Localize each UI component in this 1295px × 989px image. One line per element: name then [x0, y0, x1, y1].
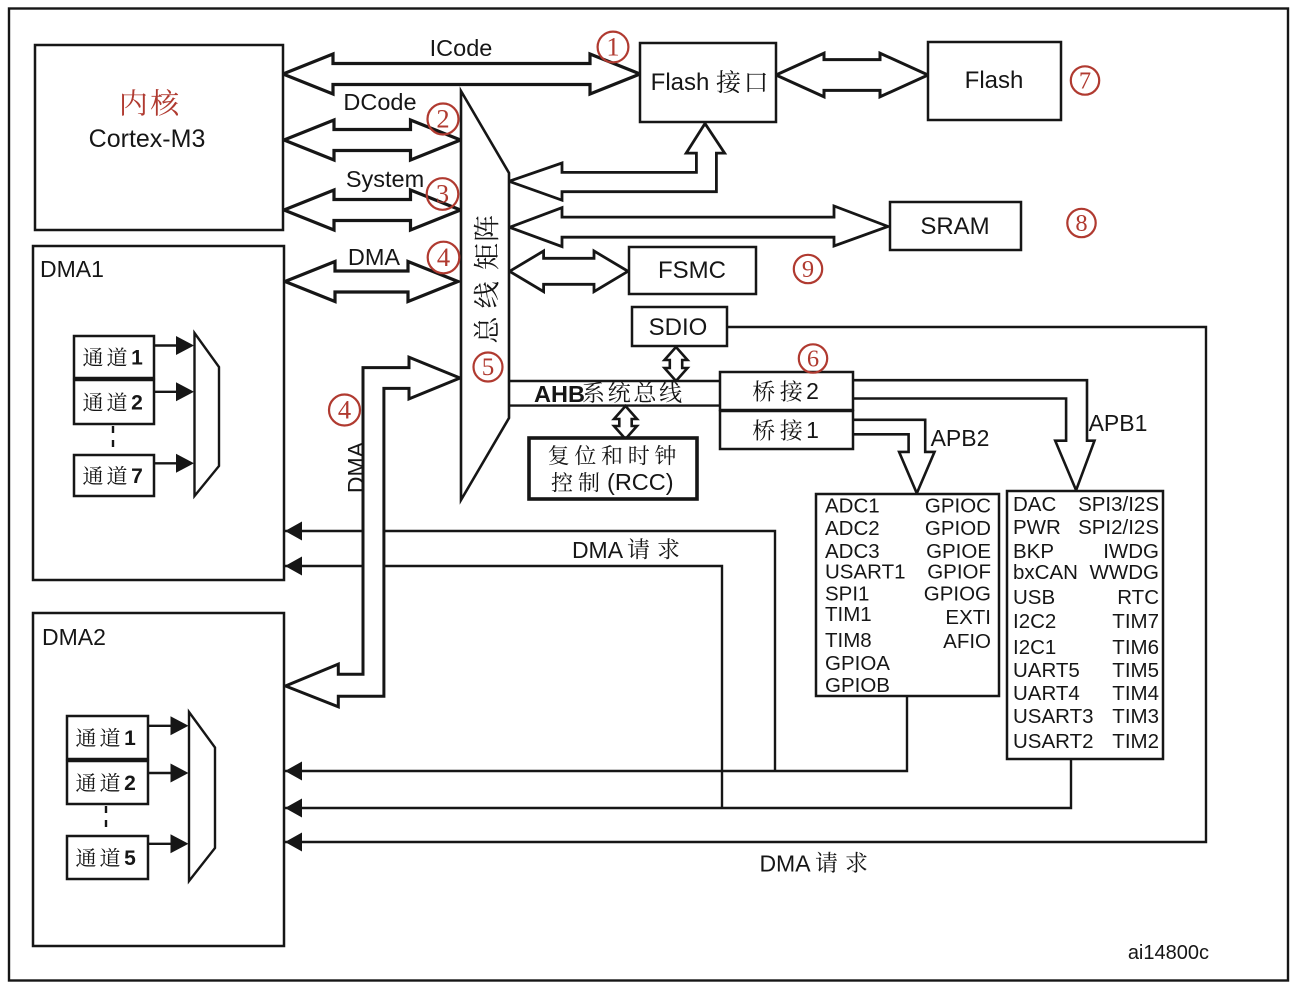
- label bus matrix (vertical): [474, 216, 499, 342]
- box DMA1 channel7: [74, 455, 154, 496]
- box bridge2: [720, 372, 853, 410]
- label core (red): [122, 89, 146, 115]
- svg-text:ICode: ICode: [430, 35, 493, 61]
- svg-text:SRAM: SRAM: [920, 213, 989, 240]
- svg-text:7: 7: [1079, 68, 1091, 95]
- svg-text:TIM5: TIM5: [1112, 659, 1159, 682]
- box DMA2 channel5: [67, 836, 148, 879]
- label DMA1 channel 7: [83, 466, 103, 485]
- svg-text:(RCC): (RCC): [607, 469, 674, 495]
- mux trapezoid DMA2: [189, 712, 215, 881]
- svg-text:WWDG: WWDG: [1090, 561, 1159, 584]
- box SDIO: [632, 307, 727, 346]
- svg-text:USB: USB: [1013, 586, 1055, 609]
- box Flash interface: [640, 43, 776, 122]
- label RCC line2: [552, 472, 573, 492]
- svg-text:System: System: [346, 166, 424, 192]
- arrowhead DMA request into DMA2 (3): [285, 833, 302, 852]
- wire DMA request from APB1 to DMA2: [284, 759, 1071, 808]
- arrow DCode bus: [284, 120, 461, 160]
- box APB2 peripherals: [816, 494, 999, 696]
- label APB1 peripheral list right column: [1078, 493, 1159, 753]
- svg-text:DMA: DMA: [572, 537, 624, 563]
- label DMA2 channel 2: [76, 773, 96, 792]
- circled number 3: [427, 178, 459, 210]
- svg-text:SPI1: SPI1: [825, 583, 869, 606]
- svg-text:GPIOE: GPIOE: [926, 540, 991, 563]
- circled number 7: [1071, 66, 1099, 94]
- circled number 2: [428, 104, 459, 135]
- box bridge1: [720, 411, 853, 449]
- svg-text:1: 1: [606, 32, 619, 62]
- arrow AHB bus to RCC: [614, 406, 637, 439]
- label DMA2 channel 5: [76, 848, 96, 867]
- arrow Flash interface to Flash: [776, 53, 928, 97]
- svg-text:DCode: DCode: [343, 89, 416, 115]
- svg-text:USART2: USART2: [1013, 730, 1094, 753]
- svg-text:TIM6: TIM6: [1112, 636, 1159, 659]
- svg-text:GPIOC: GPIOC: [925, 495, 991, 518]
- circled number 4: [428, 242, 460, 274]
- svg-text:GPIOD: GPIOD: [925, 517, 991, 540]
- svg-text:Flash: Flash: [651, 69, 710, 96]
- svg-text:I2C2: I2C2: [1013, 610, 1056, 633]
- svg-text:1: 1: [124, 727, 136, 750]
- circled number 8: [1067, 209, 1095, 237]
- label APB1 peripheral list left column: [1013, 493, 1094, 753]
- arrow DMA bus DMA1: [285, 262, 458, 302]
- svg-text:5: 5: [124, 847, 136, 870]
- svg-text:AHB: AHB: [534, 381, 585, 407]
- arrowhead DMA request into DMA2 (1): [285, 762, 302, 781]
- svg-text:UART4: UART4: [1013, 682, 1080, 705]
- svg-text:GPIOB: GPIOB: [825, 674, 890, 697]
- svg-text:TIM2: TIM2: [1112, 730, 1159, 753]
- svg-text:AFIO: AFIO: [943, 630, 991, 653]
- label DMA2 channel 1: [76, 728, 96, 747]
- svg-text:APB1: APB1: [1089, 410, 1148, 436]
- svg-text:3: 3: [436, 179, 449, 209]
- svg-text:DMA1: DMA1: [40, 256, 104, 282]
- box DMA2: [33, 613, 284, 946]
- svg-text:GPIOA: GPIOA: [825, 652, 890, 675]
- svg-text:bxCAN: bxCAN: [1013, 561, 1078, 584]
- arrow DMA1 ch1 to mux: [154, 344, 178, 346]
- arrow SDIO to AHB bus: [665, 347, 688, 381]
- svg-text:6: 6: [807, 346, 819, 373]
- box DMA2 channel1: [67, 716, 148, 759]
- box SRAM: [890, 202, 1021, 250]
- svg-text:TIM3: TIM3: [1112, 705, 1159, 728]
- svg-text:DMA: DMA: [759, 851, 811, 877]
- svg-text:DMA: DMA: [348, 244, 401, 270]
- label DMA1 channel 1: [83, 348, 103, 367]
- arrow ICode bus: [283, 54, 640, 94]
- wire AHB system bus lower: [509, 404, 720, 406]
- svg-text:TIM8: TIM8: [825, 629, 872, 652]
- svg-text:DAC: DAC: [1013, 493, 1056, 516]
- box APB1 peripherals: [1007, 491, 1163, 759]
- svg-text:APB2: APB2: [931, 425, 990, 451]
- box DMA2 channel2: [67, 761, 148, 804]
- arrow bridge1 to APB2 peripherals: [854, 420, 935, 494]
- svg-text:ADC2: ADC2: [825, 517, 880, 540]
- label bridge2: [753, 380, 775, 401]
- svg-text:FSMC: FSMC: [658, 257, 726, 284]
- circled number 1: [598, 32, 629, 63]
- wire DMA request from SDIO to DMA2: [284, 327, 1206, 842]
- svg-text:RTC: RTC: [1117, 586, 1159, 609]
- wire DMA request from APB2 to DMA2: [284, 696, 907, 771]
- arrow DMA2 ch1 to mux: [148, 725, 172, 727]
- svg-text:TIM1: TIM1: [825, 603, 872, 626]
- dashed link DMA1 channels: [112, 426, 114, 453]
- wire AHB system bus upper: [509, 380, 720, 382]
- arrow bus matrix to SRAM: [510, 206, 888, 247]
- svg-text:IWDG: IWDG: [1103, 540, 1159, 563]
- svg-text:EXTI: EXTI: [945, 606, 991, 629]
- svg-text:4: 4: [437, 242, 450, 272]
- svg-text:ADC1: ADC1: [825, 495, 880, 518]
- svg-text:DMA2: DMA2: [42, 624, 106, 650]
- mux trapezoid DMA1: [195, 333, 220, 496]
- arrow bridge2 to APB1 peripherals: [853, 380, 1095, 490]
- box FSMC: [629, 247, 756, 294]
- svg-text:9: 9: [802, 256, 814, 283]
- svg-text:7: 7: [131, 465, 143, 488]
- svg-text:Cortex-M3: Cortex-M3: [89, 125, 206, 153]
- arrowhead DMA request into DMA2 (2): [285, 799, 302, 818]
- box Cortex-M3 core: [35, 45, 283, 230]
- svg-text:1: 1: [131, 346, 143, 369]
- label DMA1 channel 2: [83, 393, 103, 412]
- svg-text:GPIOG: GPIOG: [924, 583, 991, 606]
- svg-text:BKP: BKP: [1013, 540, 1054, 563]
- bus matrix shape: [461, 91, 509, 500]
- arrow DMA2 ch2 to mux: [148, 772, 172, 774]
- svg-text:ai14800c: ai14800c: [1128, 942, 1209, 964]
- label APB2 peripheral list right column: [924, 495, 991, 654]
- svg-text:2: 2: [131, 391, 143, 414]
- arrowhead DMA request into DMA1 (1): [285, 522, 302, 541]
- arrow DMA bus DMA2 to bus matrix (elbow): [286, 357, 461, 707]
- svg-text:ADC3: ADC3: [825, 540, 880, 563]
- svg-text:SPI3/I2S: SPI3/I2S: [1078, 493, 1159, 516]
- circled number 9: [794, 255, 822, 283]
- circled number 6: [799, 344, 827, 372]
- svg-text:2: 2: [436, 104, 449, 134]
- label APB2 peripheral list left column: [825, 495, 906, 698]
- svg-text:UART5: UART5: [1013, 659, 1080, 682]
- arrowhead DMA request into DMA1 (2): [285, 557, 302, 576]
- box DMA1 channel1: [74, 336, 154, 378]
- svg-text:DMA: DMA: [343, 441, 369, 493]
- svg-text:USART3: USART3: [1013, 705, 1094, 728]
- arrow bus matrix to FSMC: [510, 251, 628, 292]
- svg-text:USART1: USART1: [825, 561, 906, 584]
- box DMA1 channel2: [74, 380, 154, 424]
- box Flash: [928, 42, 1061, 120]
- svg-text:PWR: PWR: [1013, 516, 1061, 539]
- circled number 4: [329, 395, 360, 426]
- dashed link DMA2 channels: [105, 806, 107, 834]
- box DMA1: [33, 246, 284, 580]
- arrow System bus: [284, 190, 461, 230]
- label RCC line1: [549, 445, 569, 465]
- arrow DMA1 ch7 to mux: [154, 462, 178, 464]
- svg-text:1: 1: [806, 417, 819, 443]
- svg-text:2: 2: [124, 772, 136, 795]
- svg-text:5: 5: [482, 354, 495, 381]
- svg-text:2: 2: [806, 378, 819, 404]
- svg-text:TIM7: TIM7: [1112, 610, 1159, 633]
- svg-text:GPIOF: GPIOF: [927, 561, 991, 584]
- svg-text:4: 4: [338, 395, 351, 425]
- svg-text:SPI2/I2S: SPI2/I2S: [1078, 516, 1159, 539]
- svg-text:8: 8: [1075, 210, 1087, 237]
- wire DMA request from APB1 to DMA1: [284, 566, 722, 808]
- arrow bus matrix to Flash interface (elbow): [509, 124, 725, 201]
- arrow DMA1 ch2 to mux: [154, 391, 178, 393]
- wire DMA request from APB2 to DMA1: [284, 531, 775, 771]
- box RCC: [529, 438, 697, 499]
- svg-text:I2C1: I2C1: [1013, 636, 1056, 659]
- label bridge1: [753, 419, 775, 440]
- circled number 5: [474, 353, 503, 382]
- arrow DMA2 ch5 to mux: [148, 843, 172, 845]
- svg-text:SDIO: SDIO: [649, 314, 708, 341]
- svg-text:TIM4: TIM4: [1112, 682, 1159, 705]
- svg-text:Flash: Flash: [965, 67, 1024, 94]
